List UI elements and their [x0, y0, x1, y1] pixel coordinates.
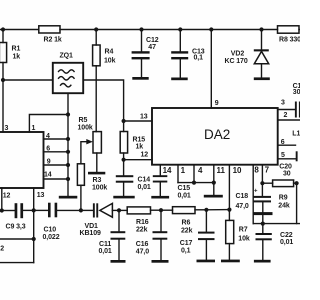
svg-text:4: 4 — [46, 133, 50, 140]
svg-text:R8 330: R8 330 — [279, 37, 300, 44]
node gnd bus pin1 — [66, 112, 70, 116]
svg-text:C22: C22 — [280, 232, 293, 239]
svg-text:C16: C16 — [136, 241, 149, 248]
wire R1 to DD1 pin3 — [2, 63, 4, 133]
svg-text:14: 14 — [163, 166, 172, 175]
resistor R7 — [226, 210, 250, 260]
svg-text:R5: R5 — [79, 117, 88, 124]
wire DD1 pin12 down — [2, 188, 11, 211]
svg-text:24k: 24k — [278, 203, 290, 210]
node bus-C13 — [178, 27, 182, 31]
svg-text:R1: R1 — [12, 46, 21, 53]
svg-text:47: 47 — [148, 44, 156, 51]
wire DD1 pin1 up and right — [29, 115, 68, 133]
svg-text:2: 2 — [284, 112, 288, 119]
capacitor C20 — [279, 151, 297, 177]
ground under C12 — [132, 77, 148, 80]
wire ZQ1 output right — [83, 80, 123, 121]
node pin12 C9 — [0, 208, 4, 212]
ground under pin11 — [204, 195, 223, 198]
capacitor C10 — [34, 203, 81, 241]
svg-text:C18: C18 — [236, 193, 249, 200]
ground under VD2 — [254, 77, 270, 80]
resistor R9 — [273, 180, 294, 210]
svg-text:3: 3 — [5, 125, 9, 132]
svg-text:R9: R9 — [279, 194, 288, 201]
wire ZQ1 bottom to ground bus — [67, 93, 69, 114]
node pin11 join — [212, 181, 216, 185]
svg-text:1k: 1k — [13, 54, 21, 61]
resistor R2 — [39, 26, 62, 44]
varicap VD1 — [80, 203, 120, 237]
ground under C14 — [113, 196, 134, 199]
svg-text:12: 12 — [141, 152, 149, 159]
svg-text:+: + — [254, 189, 258, 195]
svg-text:R3: R3 — [93, 177, 102, 184]
wire tuning out right edge — [33, 239, 35, 263]
node R6 C17 — [204, 208, 208, 212]
capacitor C11 — [99, 210, 126, 259]
svg-text:47,0: 47,0 — [236, 203, 249, 210]
svg-text:10k: 10k — [238, 236, 250, 243]
svg-text:KC 170: KC 170 — [225, 58, 248, 65]
wire DA2 pin 12 — [124, 152, 152, 160]
node gnd bus pin14 — [66, 177, 70, 181]
svg-text:100k: 100k — [78, 125, 93, 132]
wire DA2 pin14 to C15 — [160, 165, 172, 175]
svg-text:10k: 10k — [104, 58, 116, 65]
svg-text:13: 13 — [37, 192, 45, 199]
node R1-ZQ1 — [1, 78, 5, 82]
ground bus left IC — [67, 115, 69, 196]
wire DA2 pin4 — [194, 165, 203, 183]
capacitor C17 — [180, 210, 215, 260]
svg-text:13: 13 — [140, 114, 148, 121]
svg-text:47,0: 47,0 — [136, 249, 149, 256]
resistor R4 — [93, 30, 116, 66]
svg-text:22k: 22k — [181, 228, 193, 235]
ground under C16 — [152, 260, 169, 263]
capacitor C15 — [153, 175, 191, 199]
svg-text:R16: R16 — [136, 219, 149, 226]
svg-text:30: 30 — [293, 89, 300, 96]
svg-text:0,01: 0,01 — [99, 248, 112, 255]
svg-text:C9 3,3: C9 3,3 — [6, 224, 26, 231]
wire DA2 pin 13 — [124, 114, 152, 122]
svg-text:VD1: VD1 — [85, 223, 99, 230]
svg-text:C20: C20 — [279, 163, 292, 170]
svg-text:C15: C15 — [178, 185, 191, 192]
node gnd bus pin6 — [66, 150, 70, 154]
svg-text:8: 8 — [254, 166, 259, 175]
node bus-R4 — [94, 27, 98, 31]
wire R3 to varicap line — [80, 185, 82, 210]
capacitor C16 — [136, 210, 168, 260]
node bus-VD2 — [259, 27, 263, 31]
node ZQ1out-R15-pin13 — [122, 119, 126, 123]
potentiometer R5 — [78, 117, 102, 153]
resistor R3 — [77, 164, 107, 192]
node gnd bus pin4 — [66, 137, 70, 141]
svg-text:C14: C14 — [138, 177, 151, 184]
node bus-R1 — [1, 27, 5, 31]
wire to ZQ1 input — [3, 79, 53, 81]
node pin4 join — [192, 181, 196, 185]
capacitor C12 — [132, 30, 159, 77]
wire DA2 pin1 — [178, 165, 186, 183]
wire R4 to R5 — [95, 66, 97, 132]
resistor R1 — [0, 30, 20, 63]
capacitor C19 — [293, 83, 306, 118]
capacitor C22 — [256, 224, 294, 260]
node VD1 C11 — [117, 208, 121, 212]
node R9 right — [295, 181, 299, 185]
wire audio out line — [253, 223, 300, 225]
svg-text:7: 7 — [265, 166, 270, 175]
svg-text:R7: R7 — [239, 227, 248, 234]
node C18 C22 — [261, 222, 265, 226]
wire DD1 pin14 stub — [44, 172, 69, 180]
node tuning — [32, 237, 36, 241]
ground under C22 — [254, 260, 271, 263]
wire top bus right of R2 — [60, 29, 278, 31]
svg-text:3: 3 — [281, 100, 285, 107]
svg-text:0,01: 0,01 — [178, 192, 191, 199]
zener diode VD2 — [225, 30, 269, 78]
wire DD1 pin4 stub — [44, 133, 69, 140]
svg-text:L1: L1 — [292, 131, 300, 138]
wire pin7 to R9 — [262, 182, 272, 184]
svg-text:R15: R15 — [133, 137, 146, 144]
svg-text:6: 6 — [281, 139, 285, 146]
svg-text:R2 1k: R2 1k — [44, 37, 62, 44]
svg-text:R6: R6 — [182, 220, 191, 227]
wire tuning out top — [0, 238, 34, 240]
IC DA2 box — [152, 108, 278, 165]
wire DA2 pin8 down — [253, 165, 259, 224]
svg-text:4: 4 — [198, 166, 203, 175]
wire DA2 pin6 stub — [278, 139, 296, 146]
ground under C15 — [151, 196, 169, 199]
capacitor C14 — [116, 160, 151, 196]
svg-text:VD2: VD2 — [231, 51, 245, 58]
svg-text:1: 1 — [32, 125, 36, 132]
wire pins 1-4-11 join — [178, 182, 214, 184]
svg-text:10: 10 — [233, 166, 242, 175]
svg-text:1k: 1k — [136, 144, 144, 151]
svg-text:0,1: 0,1 — [181, 248, 191, 255]
svg-text:14: 14 — [44, 172, 52, 179]
wire DA2 pin7 down — [262, 165, 269, 184]
svg-text:ZQ1: ZQ1 — [60, 53, 74, 60]
wire DA2 pin3 stub — [278, 100, 295, 110]
wire DA2 pin11 — [214, 165, 226, 196]
ground under C17 — [197, 260, 216, 263]
svg-text:6: 6 — [46, 145, 50, 152]
wire DA2 pin5 stub — [278, 152, 296, 159]
svg-text:11: 11 — [217, 166, 226, 175]
svg-text:C10: C10 — [44, 227, 57, 234]
svg-text:12: 12 — [3, 193, 11, 200]
crystal filter ZQ1 — [53, 53, 83, 94]
wire DA2 pin2 stub — [278, 112, 300, 120]
node pin7 R9 C18 — [260, 181, 264, 185]
svg-text:30: 30 — [283, 170, 291, 177]
capacitor C9 — [2, 203, 34, 230]
ground under R7 — [221, 260, 240, 263]
svg-text:C12: C12 — [146, 37, 159, 44]
R5 wiper arrow — [81, 139, 93, 164]
ground under left bus — [59, 196, 78, 199]
svg-text:9: 9 — [215, 100, 219, 107]
svg-text:0,01: 0,01 — [138, 184, 151, 191]
svg-text:1: 1 — [181, 166, 186, 175]
node pin10 R7 — [227, 208, 231, 212]
wire tuning out bottom — [0, 262, 34, 264]
wire R5 bottom to ground — [96, 153, 98, 172]
node R15-pin12-C14 — [122, 158, 126, 162]
svg-text:22k: 22k — [136, 227, 148, 234]
node R16 R6 C16 — [159, 208, 163, 212]
svg-text:0,1: 0,1 — [194, 55, 204, 62]
svg-text:5: 5 — [281, 152, 285, 159]
node bus-pin9 — [209, 27, 213, 31]
svg-text:DA2: DA2 — [204, 127, 230, 142]
svg-text:9: 9 — [47, 159, 51, 166]
svg-text:C11: C11 — [99, 241, 111, 248]
ground under C13 — [171, 78, 188, 81]
wire top supply bus — [0, 29, 39, 31]
svg-text:2: 2 — [0, 246, 4, 253]
ground under R5 — [88, 172, 105, 175]
svg-text:KB109: KB109 — [80, 230, 101, 237]
svg-text:C17: C17 — [180, 240, 193, 247]
capacitor C13 — [171, 30, 205, 78]
resistor R16 — [119, 207, 161, 234]
svg-text:0,022: 0,022 — [43, 234, 60, 241]
resistor R6 — [161, 207, 206, 235]
svg-text:0,01: 0,01 — [280, 239, 293, 246]
node gnd bus pin9 — [66, 163, 70, 167]
wire DD1 pin13 down — [34, 188, 45, 239]
wire R6 node to pin10 node — [206, 209, 229, 211]
node bus-C12 — [139, 27, 143, 31]
wire DD1 pin9 stub — [44, 159, 69, 166]
svg-text:R4: R4 — [105, 49, 114, 56]
wire DD1 pin6 stub — [44, 145, 69, 152]
resistor R8 — [278, 26, 302, 44]
svg-text:100k: 100k — [92, 185, 107, 192]
capacitor C18 electrolytic — [236, 183, 273, 223]
node R3 line — [79, 208, 83, 212]
wire R9 right to bottom line — [294, 183, 297, 223]
ground under C11 — [111, 260, 126, 263]
wire DA2 pin10 down — [229, 165, 242, 210]
wire DA2 pin9 from bus — [211, 30, 219, 109]
resistor R15 — [120, 121, 145, 160]
IC DD1 box — [0, 132, 44, 188]
node pin13 C9 C10 — [32, 208, 36, 212]
